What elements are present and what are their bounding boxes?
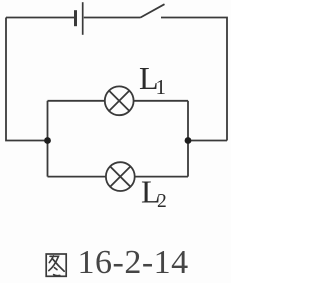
lamp L1 (circle with X) — [105, 86, 134, 115]
caption character 图 (drawn) — [46, 254, 66, 276]
battery cell B (long thin plate = positive) — [82, 2, 84, 35]
wire L1 branch left — [48, 100, 105, 102]
wire battery to switch — [84, 17, 141, 19]
lamp L2 (circle with X) — [106, 162, 135, 191]
node B (right junction dot) — [185, 137, 192, 144]
wire right branch vertical (node B riser) — [187, 101, 189, 177]
wire L1 branch right — [134, 100, 188, 102]
wire L2 branch right — [135, 176, 188, 178]
wire L2 branch left — [48, 176, 106, 178]
wire switch to top-right corner and down right side — [161, 18, 227, 141]
wire right side horizontal into node B — [188, 140, 227, 142]
battery cell B (short thick plate = negative) — [74, 10, 77, 26]
switch S (open blade) — [141, 4, 165, 17]
wire left branch vertical (node A riser) — [47, 101, 49, 177]
wire left side vertical and horizontal into node A — [6, 18, 48, 141]
wire top-left (battery negative lead) — [6, 17, 74, 19]
node A (left junction dot) — [44, 137, 51, 144]
svg-text:16-2-14: 16-2-14 — [78, 244, 189, 281]
